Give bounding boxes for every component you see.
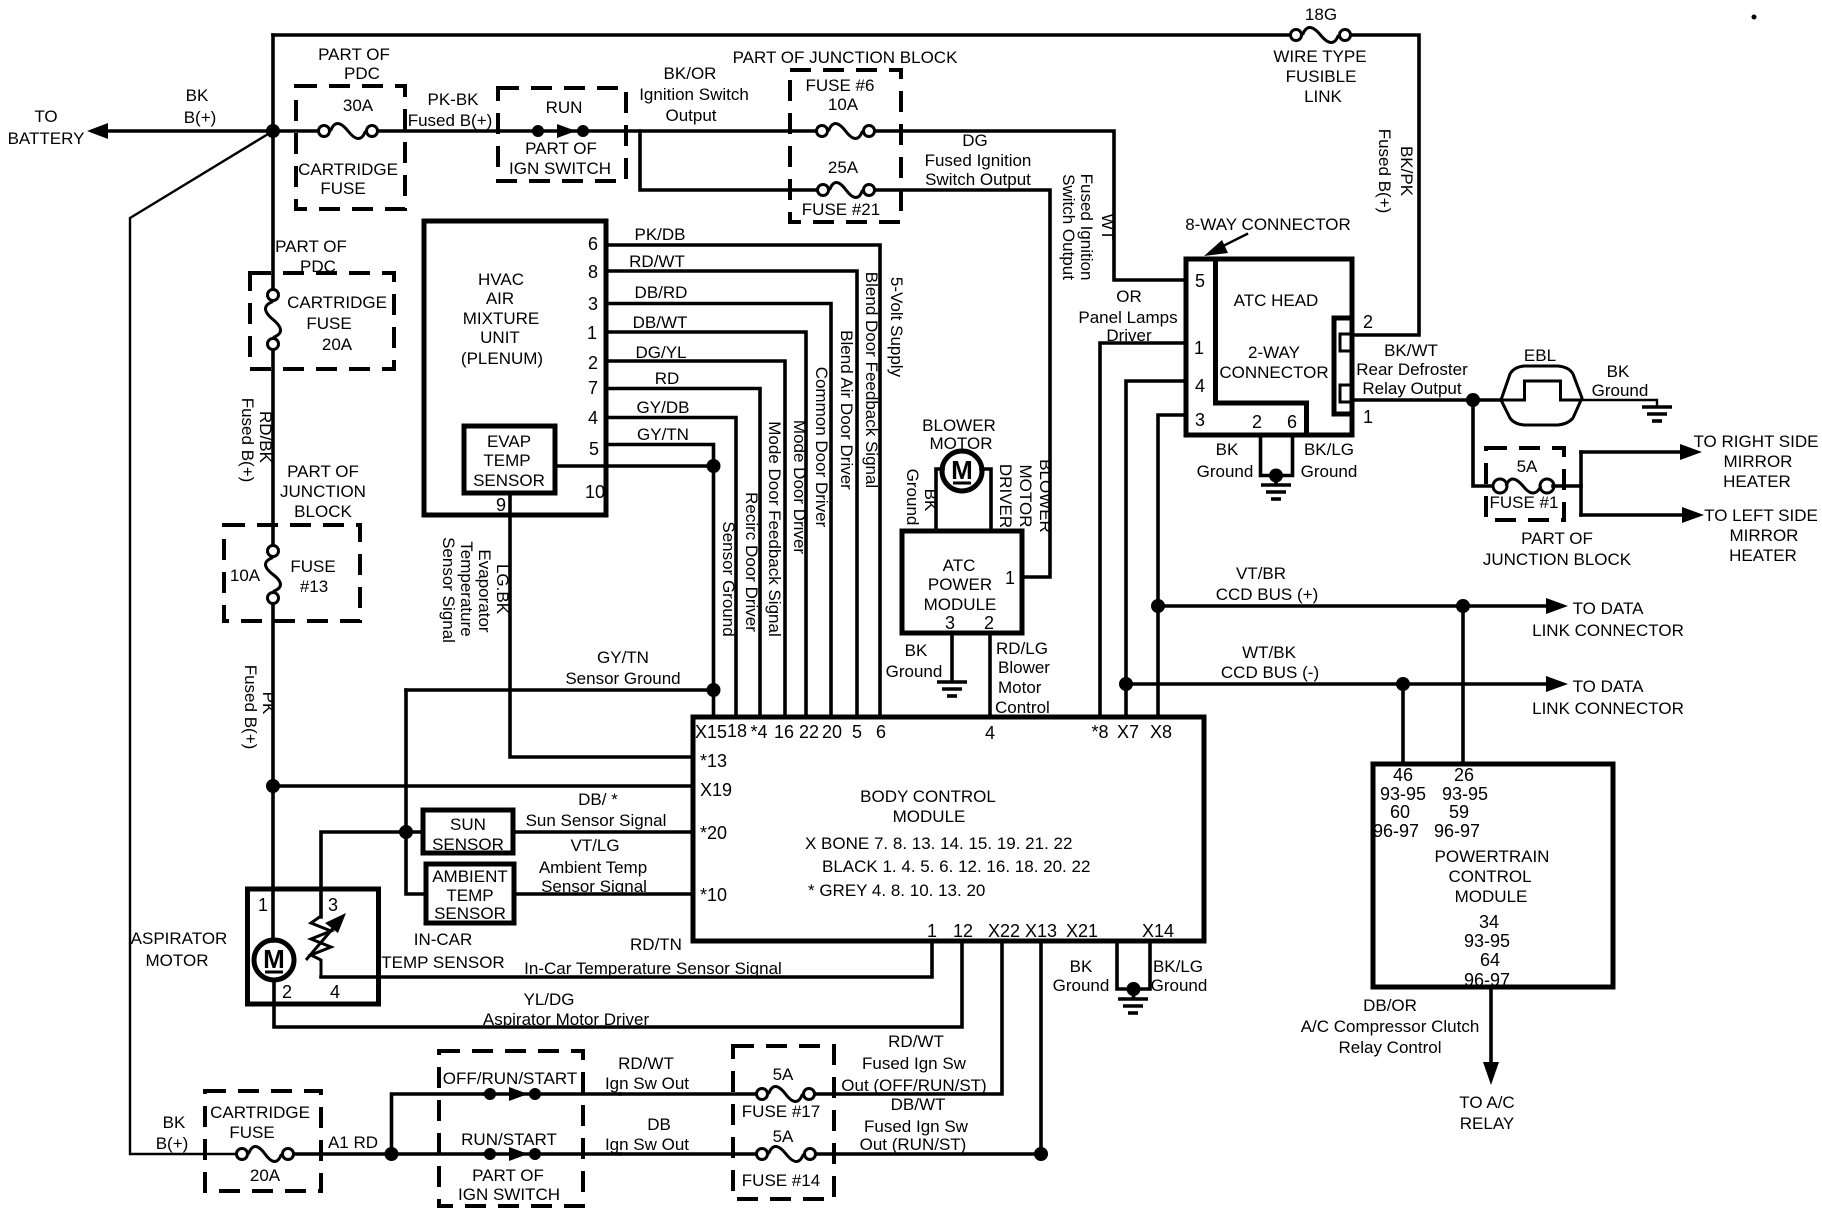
- HVAC air mixture unit box: [424, 221, 606, 515]
- wire: YL/DG aspirator motor driver, pin 2 to BCM 12: [274, 941, 962, 1027]
- svg-text:TO A/C: TO A/C: [1459, 1093, 1514, 1112]
- node: CCD- to PCM: [1396, 677, 1410, 691]
- svg-text:* GREY 4. 8. 10. 13. 20: * GREY 4. 8. 10. 13. 20: [808, 881, 985, 900]
- svg-text:GY/TN: GY/TN: [597, 648, 649, 667]
- svg-text:X14: X14: [1142, 921, 1174, 941]
- wire: HVAC pin 1 DB/WT common door driver to BCM 22: [606, 332, 806, 717]
- ignition switch dashed box (bottom): [439, 1051, 583, 1206]
- svg-text:BLOWER: BLOWER: [1036, 459, 1055, 533]
- svg-text:Out (OFF/RUN/ST): Out (OFF/RUN/ST): [841, 1076, 986, 1095]
- svg-text:RD/BK: RD/BK: [256, 411, 275, 464]
- svg-text:TO DATA: TO DATA: [1573, 677, 1645, 696]
- blower motor M symbol: [942, 451, 982, 491]
- svg-text:5A: 5A: [773, 1127, 794, 1146]
- wire: left main riser x=273 from top bus to battery junction and PDC fuse 20A: [271, 35, 275, 289]
- svg-text:20A: 20A: [322, 335, 353, 354]
- wire: top B(+) bus from left riser to fusible link and down to 2-way connector pin 2: [273, 33, 1290, 37]
- svg-text:Panel Lamps: Panel Lamps: [1078, 308, 1177, 327]
- svg-text:BK: BK: [163, 1113, 186, 1132]
- wire: branch up to OFF/RUN/START contact: [392, 1094, 485, 1154]
- powertrain control module box: [1373, 764, 1613, 987]
- svg-text:IN-CAR: IN-CAR: [414, 930, 473, 949]
- svg-text:LG.BK: LG.BK: [493, 564, 512, 615]
- svg-text:2-WAY: 2-WAY: [1248, 343, 1300, 362]
- svg-text:Sensor Signal: Sensor Signal: [439, 537, 458, 643]
- svg-text:1: 1: [927, 921, 937, 941]
- wire: WT/BK CCD BUS (-): [1126, 682, 1548, 686]
- fuse #6: [817, 126, 828, 137]
- svg-text:5: 5: [852, 722, 862, 742]
- svg-text:96-97: 96-97: [1464, 970, 1510, 990]
- svg-text:5A: 5A: [1517, 457, 1538, 476]
- ground (EBL): [1642, 407, 1672, 421]
- wire: HVAC pin 3 DB/RD blend air door driver to BCM 20: [606, 304, 831, 718]
- svg-text:20: 20: [822, 722, 842, 742]
- svg-text:4: 4: [1195, 376, 1205, 396]
- 2-way connector bracket: [1334, 318, 1352, 414]
- svg-text:Ambient Temp: Ambient Temp: [539, 858, 647, 877]
- svg-text:1: 1: [258, 895, 268, 915]
- svg-text:FUSE #14: FUSE #14: [742, 1171, 820, 1190]
- svg-text:Ground: Ground: [903, 469, 922, 526]
- thermistor arrow: [306, 920, 340, 960]
- svg-text:Ground: Ground: [1301, 462, 1358, 481]
- svg-text:2: 2: [282, 982, 292, 1002]
- svg-text:X7: X7: [1117, 722, 1139, 742]
- svg-text:10A: 10A: [230, 566, 261, 585]
- wire: to left side mirror heater: [1581, 513, 1683, 517]
- svg-text:DG/YL: DG/YL: [635, 343, 686, 362]
- svg-text:DB/OR: DB/OR: [1363, 996, 1417, 1015]
- ATC head / 8-way connector outer box: [1186, 259, 1352, 435]
- wire: rear defroster relay output to EBL: [1352, 398, 1501, 402]
- svg-text:5-Volt Supply: 5-Volt Supply: [887, 277, 906, 378]
- svg-text:FUSE #17: FUSE #17: [742, 1102, 820, 1121]
- svg-text:CARTRIDGE: CARTRIDGE: [210, 1103, 310, 1122]
- node: sensor ground / sun sensor junction: [399, 825, 413, 839]
- wire: VT/LG ambient temp sensor signal to BCM *10: [514, 892, 693, 896]
- svg-text:SUN: SUN: [450, 815, 486, 834]
- wire: DB/WT fused ign sw out to BCM X13: [816, 941, 1041, 1154]
- svg-text:(PLENUM): (PLENUM): [461, 349, 543, 368]
- svg-text:Output: Output: [665, 106, 716, 125]
- svg-text:CARTRIDGE: CARTRIDGE: [298, 160, 398, 179]
- svg-text:TO: TO: [34, 107, 57, 126]
- svg-text:BK/LG: BK/LG: [1304, 440, 1354, 459]
- svg-text:2: 2: [984, 613, 994, 633]
- svg-text:CONTROL: CONTROL: [1448, 867, 1531, 886]
- wire: ATC head pin 3 to BCM X8: [1158, 415, 1186, 717]
- svg-text:OFF/RUN/START: OFF/RUN/START: [443, 1069, 577, 1088]
- svg-text:Ground: Ground: [886, 662, 943, 681]
- node: battery junction: [266, 124, 280, 138]
- svg-text:DB: DB: [647, 1115, 671, 1134]
- svg-text:X21: X21: [1066, 921, 1098, 941]
- node: sensor ground junction: [707, 683, 721, 697]
- fuse: bottom cartridge 20A: [237, 1149, 248, 1160]
- svg-text:TO LEFT SIDE: TO LEFT SIDE: [1704, 506, 1818, 525]
- svg-text:AMBIENT: AMBIENT: [432, 867, 508, 886]
- svg-text:BLOWER: BLOWER: [922, 416, 996, 435]
- 2-way connector pin 1 tab: [1340, 385, 1352, 402]
- svg-text:Blend Air Door Driver: Blend Air Door Driver: [837, 330, 856, 490]
- svg-text:Motor: Motor: [998, 678, 1042, 697]
- svg-text:BLOCK: BLOCK: [294, 502, 352, 521]
- svg-text:WT: WT: [1098, 214, 1117, 240]
- wire: BCM X21/X14 grounds: [1117, 941, 1150, 989]
- svg-text:20A: 20A: [250, 1166, 281, 1185]
- svg-text:Sensor Ground: Sensor Ground: [719, 521, 738, 636]
- svg-text:CARTRIDGE: CARTRIDGE: [287, 293, 387, 312]
- svg-text:BLACK 1. 4. 5. 6. 12. 16. 18.: BLACK 1. 4. 5. 6. 12. 16. 18. 20. 22: [822, 857, 1090, 876]
- svg-text:18: 18: [727, 721, 747, 741]
- svg-text:2: 2: [1363, 312, 1373, 332]
- svg-text:RELAY: RELAY: [1460, 1114, 1515, 1133]
- svg-text:AIR: AIR: [486, 289, 514, 308]
- svg-text:12: 12: [953, 921, 973, 941]
- node: EBL feed junction: [1466, 393, 1480, 407]
- svg-text:93-95: 93-95: [1464, 931, 1510, 951]
- svg-text:EBL: EBL: [1524, 346, 1556, 365]
- svg-text:BK: BK: [921, 489, 940, 512]
- node: ground join: [1127, 982, 1141, 996]
- wire: through 30A fuse: [273, 129, 317, 133]
- svg-text:MODULE: MODULE: [893, 807, 966, 826]
- svg-text:Sun Sensor Signal: Sun Sensor Signal: [526, 811, 667, 830]
- svg-text:4: 4: [985, 723, 995, 743]
- svg-text:Blend Door Feedback Signal: Blend Door Feedback Signal: [862, 272, 881, 488]
- svg-text:IGN SWITCH: IGN SWITCH: [458, 1185, 560, 1204]
- svg-text:TEMP: TEMP: [483, 451, 530, 470]
- svg-text:FUSE: FUSE: [320, 179, 365, 198]
- svg-text:BK: BK: [905, 641, 928, 660]
- wire: DG fused ign sw output from fuse #21 down to ATC power module pin 1: [875, 190, 1050, 577]
- wire: fuse #1 output split to mirror heaters: [1553, 484, 1581, 488]
- svg-text:OR: OR: [1116, 287, 1142, 306]
- EBL grid symbol: [1501, 366, 1582, 425]
- svg-text:CONNECTOR: CONNECTOR: [1219, 363, 1328, 382]
- svg-text:WIRE TYPE: WIRE TYPE: [1273, 47, 1366, 66]
- svg-text:30A: 30A: [343, 96, 374, 115]
- svg-text:X15: X15: [695, 722, 727, 742]
- svg-text:18G: 18G: [1305, 5, 1337, 24]
- arrow to battery: [87, 123, 108, 139]
- svg-text:4: 4: [588, 408, 598, 428]
- svg-text:34: 34: [1479, 912, 1499, 932]
- svg-text:MOTOR: MOTOR: [146, 951, 209, 970]
- svg-text:MOTOR: MOTOR: [1016, 465, 1035, 528]
- svg-text:MIRROR: MIRROR: [1724, 452, 1793, 471]
- svg-text:25A: 25A: [828, 158, 859, 177]
- svg-text:Sensor Signal: Sensor Signal: [541, 877, 647, 896]
- svg-text:BK/LG: BK/LG: [1153, 957, 1203, 976]
- svg-text:CCD BUS (-): CCD BUS (-): [1221, 663, 1319, 682]
- svg-text:POWERTRAIN: POWERTRAIN: [1435, 847, 1550, 866]
- wire: down to fuse #1: [1473, 400, 1494, 486]
- svg-text:5: 5: [1195, 271, 1205, 291]
- svg-text:PART OF: PART OF: [287, 462, 359, 481]
- svg-text:Control: Control: [995, 698, 1050, 717]
- svg-text:Ground: Ground: [1053, 976, 1110, 995]
- node: ground join: [1269, 469, 1283, 483]
- wire: A1 RD to ign switch: [294, 1152, 484, 1156]
- svg-text:SENSOR: SENSOR: [434, 904, 506, 923]
- wire: GY/TN sensor ground horizontal run: [406, 688, 714, 692]
- svg-text:RUN: RUN: [546, 98, 583, 117]
- svg-text:Fused Ign Sw: Fused Ign Sw: [862, 1054, 967, 1073]
- svg-text:Switch Output: Switch Output: [1059, 174, 1078, 280]
- svg-text:DRIVER: DRIVER: [996, 464, 1015, 528]
- svg-text:*13: *13: [700, 751, 727, 771]
- evap temp sensor box: [464, 426, 555, 493]
- wire: RD/LG blower motor control to BCM 4: [988, 633, 992, 717]
- svg-text:FUSE: FUSE: [290, 557, 335, 576]
- wire: riser between PDC 20A fuse and fuse #13: [271, 350, 275, 544]
- svg-text:BK: BK: [1607, 362, 1630, 381]
- svg-text:RD/WT: RD/WT: [888, 1032, 944, 1051]
- svg-text:PART OF: PART OF: [472, 1166, 544, 1185]
- svg-text:YL/DG: YL/DG: [523, 990, 574, 1009]
- svg-text:Common Door Driver: Common Door Driver: [812, 367, 831, 528]
- thermistor (in-car temp sensor): [311, 916, 331, 977]
- svg-text:Fused Ignition: Fused Ignition: [925, 151, 1032, 170]
- svg-text:BK/WT: BK/WT: [1384, 341, 1438, 360]
- svg-text:UNIT: UNIT: [480, 328, 520, 347]
- ATC head inner box divider: [1216, 259, 1307, 435]
- svg-text:Mode Door Feedback Signal: Mode Door Feedback Signal: [765, 421, 784, 636]
- wire: DB/OR A/C compressor clutch relay control: [1489, 987, 1493, 1063]
- svg-text:22: 22: [799, 722, 819, 742]
- wire: X19 sense wire to BCM: [273, 784, 693, 788]
- svg-text:6: 6: [588, 234, 598, 254]
- wire: OR panel lamps driver, ATC head pin 1 to BCM *8: [1100, 343, 1186, 717]
- svg-text:LINK CONNECTOR: LINK CONNECTOR: [1532, 621, 1684, 640]
- svg-text:VT/BR: VT/BR: [1236, 564, 1286, 583]
- svg-text:60: 60: [1390, 802, 1410, 822]
- svg-text:TO DATA: TO DATA: [1573, 599, 1645, 618]
- svg-text:Ign Sw Out: Ign Sw Out: [605, 1074, 689, 1093]
- junction block dashed box (fuse #6 / #21): [790, 70, 901, 222]
- svg-text:BK: BK: [1216, 440, 1239, 459]
- svg-text:DB/RD: DB/RD: [635, 283, 688, 302]
- svg-text:1: 1: [587, 323, 597, 343]
- body control module box: [693, 717, 1204, 941]
- svg-text:FUSE #21: FUSE #21: [802, 200, 880, 219]
- svg-text:Fused B(+): Fused B(+): [1375, 129, 1394, 214]
- fuse #21: [818, 185, 829, 196]
- svg-text:BODY CONTROL: BODY CONTROL: [860, 787, 996, 806]
- svg-text:PDC: PDC: [300, 257, 336, 276]
- svg-text:96-97: 96-97: [1373, 821, 1419, 841]
- svg-text:GY/TN: GY/TN: [637, 425, 689, 444]
- svg-text:RUN/START: RUN/START: [461, 1130, 557, 1149]
- svg-text:SENSOR: SENSOR: [432, 835, 504, 854]
- wire: RD/WT fused ign sw out to BCM X22: [815, 941, 1002, 1094]
- svg-text:*8: *8: [1091, 722, 1108, 742]
- wire: HVAC pin 7 RD mode door feedback to BCM *4: [606, 389, 760, 718]
- wire: EBL to ground: [1582, 400, 1657, 406]
- svg-text:Fused Ignition: Fused Ignition: [1077, 174, 1096, 281]
- wire: WT fused ign sw output from fuse #6 to ATC head pin 5: [875, 131, 1186, 280]
- svg-text:1: 1: [1363, 407, 1373, 427]
- svg-text:26: 26: [1454, 765, 1474, 785]
- sun sensor box: [423, 810, 513, 853]
- svg-text:A/C Compressor Clutch: A/C Compressor Clutch: [1301, 1017, 1480, 1036]
- wire: branch down to fuse #21: [640, 131, 817, 190]
- wire: HVAC pin 10 from evap sensor: [555, 464, 714, 468]
- svg-text:7: 7: [588, 378, 598, 398]
- svg-text:Fused Ign Sw: Fused Ign Sw: [864, 1117, 969, 1136]
- wire: aspirator pin 1 feed: [271, 889, 275, 941]
- svg-text:8: 8: [588, 262, 598, 282]
- svg-text:Aspirator Motor Driver: Aspirator Motor Driver: [483, 1010, 650, 1029]
- wire: PK fused B(+) down to junction with X19 wire and aspirator pin 1: [271, 604, 275, 889]
- switch OFF/RUN/START contacts: [484, 1092, 620, 1096]
- cartridge fuse 20A dashed box (bottom): [205, 1091, 321, 1191]
- svg-text:JUNCTION: JUNCTION: [280, 482, 366, 501]
- switch RUN/START contacts: [484, 1152, 620, 1156]
- junction block dashed box (fuse #13): [224, 525, 360, 621]
- svg-text:10A: 10A: [828, 95, 859, 114]
- svg-text:46: 46: [1393, 765, 1413, 785]
- svg-text:9: 9: [496, 495, 506, 515]
- svg-text:Fused B(+): Fused B(+): [408, 111, 493, 130]
- svg-text:Ground: Ground: [1197, 462, 1254, 481]
- svg-text:RD: RD: [655, 369, 680, 388]
- switch RUN contacts: [498, 129, 626, 133]
- aspirator motor / in-car temp sensor box: [248, 889, 379, 1004]
- svg-text:3: 3: [945, 613, 955, 633]
- ATC power module box: [902, 531, 1022, 633]
- wire: evap temp sensor signal pin 9 down to BCM *13: [510, 493, 693, 757]
- wire: ATC head pin 2 ground drop: [1261, 435, 1293, 476]
- svg-text:PART OF: PART OF: [275, 237, 347, 256]
- svg-text:EVAP: EVAP: [487, 432, 531, 451]
- svg-text:4: 4: [330, 982, 340, 1002]
- svg-text:BK/OR: BK/OR: [664, 64, 717, 83]
- svg-text:1: 1: [1005, 568, 1015, 588]
- svg-text:5A: 5A: [773, 1065, 794, 1084]
- svg-text:Ground: Ground: [1592, 381, 1649, 400]
- wire: VT/BR CCD BUS (+): [1158, 604, 1548, 608]
- svg-text:Relay Output: Relay Output: [1362, 379, 1461, 398]
- PDC dashed box (30A cartridge fuse): [296, 86, 405, 209]
- wire: diagonal down to bottom-left riser: [130, 131, 273, 1154]
- ground (ATC head): [1274, 476, 1278, 485]
- wire: ATC power module pin 3 to ground: [950, 633, 954, 681]
- fuse: PDC cartridge 20A (vertical): [268, 290, 279, 301]
- svg-text:MODULE: MODULE: [1455, 887, 1528, 906]
- ambient temp sensor box: [426, 864, 514, 923]
- svg-text:BATTERY: BATTERY: [8, 129, 85, 148]
- svg-text:ATC HEAD: ATC HEAD: [1234, 291, 1319, 310]
- svg-text:PART OF JUNCTION BLOCK: PART OF JUNCTION BLOCK: [733, 48, 958, 67]
- svg-text:X8: X8: [1150, 722, 1172, 742]
- svg-text:Fused B(+): Fused B(+): [241, 665, 260, 750]
- svg-text:Temperature: Temperature: [457, 541, 476, 636]
- svg-text:HVAC: HVAC: [478, 270, 524, 289]
- ground (BCM): [1132, 989, 1136, 998]
- svg-text:*10: *10: [700, 885, 727, 905]
- node: CCD- at BCM X7 riser: [1119, 677, 1133, 691]
- wire: HVAC pin 5 GY/TN sensor ground to BCM X15: [606, 445, 714, 718]
- wire: DB/* sun sensor signal to BCM *20: [513, 830, 693, 834]
- arrow to 8-way connector: [1215, 234, 1247, 250]
- svg-text:B(+): B(+): [184, 108, 217, 127]
- svg-text:Fused B(+): Fused B(+): [238, 398, 257, 483]
- svg-text:TO RIGHT SIDE: TO RIGHT SIDE: [1693, 432, 1818, 451]
- svg-text:Ign Sw Out: Ign Sw Out: [605, 1135, 689, 1154]
- svg-text:Blower: Blower: [998, 658, 1050, 677]
- svg-text:X22: X22: [988, 921, 1020, 941]
- svg-text:Evaporator: Evaporator: [475, 549, 494, 632]
- svg-text:PK: PK: [259, 692, 278, 715]
- wire: blower motor left lead: [936, 469, 943, 531]
- svg-text:MIXTURE: MIXTURE: [463, 309, 540, 328]
- svg-text:Ignition Switch: Ignition Switch: [639, 85, 749, 104]
- wire: CCD+ drop to PCM pin 26: [1461, 606, 1465, 764]
- fuse #1: [1493, 479, 1507, 493]
- svg-text:DB/ *: DB/ *: [578, 790, 618, 809]
- svg-text:CCD BUS (+): CCD BUS (+): [1216, 585, 1318, 604]
- svg-text:Rear Defroster: Rear Defroster: [1356, 360, 1468, 379]
- svg-text:2: 2: [1252, 412, 1262, 432]
- svg-text:*4: *4: [750, 722, 767, 742]
- svg-text:VT/LG: VT/LG: [570, 836, 619, 855]
- svg-text:BK: BK: [186, 86, 209, 105]
- node: A1 RD junction: [385, 1147, 399, 1161]
- svg-text:Sensor Ground: Sensor Ground: [565, 669, 680, 688]
- svg-text:93-95: 93-95: [1442, 784, 1488, 804]
- svg-text:5: 5: [589, 439, 599, 459]
- svg-text:Switch Output: Switch Output: [925, 170, 1031, 189]
- svg-text:DB/WT: DB/WT: [891, 1095, 946, 1114]
- svg-text:PK/DB: PK/DB: [634, 225, 685, 244]
- svg-text:93-95: 93-95: [1380, 784, 1426, 804]
- svg-text:JUNCTION BLOCK: JUNCTION BLOCK: [1483, 550, 1632, 569]
- svg-text:6: 6: [876, 722, 886, 742]
- svg-text:DB/WT: DB/WT: [633, 313, 688, 332]
- svg-text:3: 3: [1195, 410, 1205, 430]
- svg-text:Out (RUN/ST): Out (RUN/ST): [860, 1135, 967, 1154]
- svg-text:FUSE #6: FUSE #6: [806, 76, 875, 95]
- aspirator motor M symbol: [254, 940, 294, 980]
- ground (ATC power module): [937, 682, 967, 696]
- svg-text:IGN SWITCH: IGN SWITCH: [509, 159, 611, 178]
- svg-text:TEMP SENSOR: TEMP SENSOR: [381, 953, 504, 972]
- fuse #14: [757, 1149, 768, 1160]
- svg-text:PART OF: PART OF: [525, 139, 597, 158]
- svg-text:2: 2: [588, 353, 598, 373]
- svg-text:DG: DG: [962, 131, 988, 150]
- wire: HVAC pin 4 GY/DB recirc door driver to BCM 18: [606, 418, 736, 718]
- svg-text:FUSE: FUSE: [229, 1123, 274, 1142]
- svg-text:RD/WT: RD/WT: [629, 252, 685, 271]
- svg-text:HEATER: HEATER: [1729, 546, 1797, 565]
- svg-text:TEMP: TEMP: [446, 886, 493, 905]
- svg-text:FUSE #1: FUSE #1: [1490, 493, 1559, 512]
- svg-text:Mode Door Driver: Mode Door Driver: [790, 420, 809, 554]
- svg-text:SENSOR: SENSOR: [473, 471, 545, 490]
- svg-text:6: 6: [1287, 412, 1297, 432]
- svg-text:ASPIRATOR: ASPIRATOR: [131, 929, 228, 948]
- svg-text:HEATER: HEATER: [1723, 472, 1791, 491]
- svg-text:POWER: POWER: [928, 575, 992, 594]
- svg-text:Ground: Ground: [1151, 976, 1208, 995]
- svg-text:A1 RD: A1 RD: [328, 1133, 378, 1152]
- svg-text:10: 10: [585, 482, 605, 502]
- svg-text:RD/LG: RD/LG: [996, 639, 1048, 658]
